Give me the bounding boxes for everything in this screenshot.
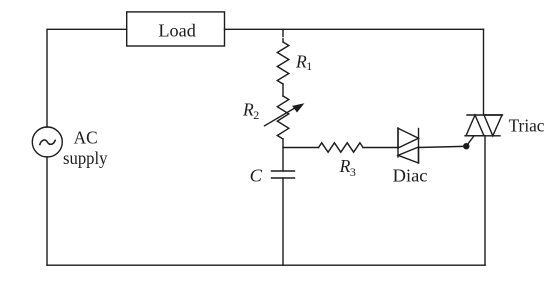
AC sine tilde <box>40 140 55 145</box>
wire left rail below AC <box>46 157 48 265</box>
svg-text:supply: supply <box>63 148 108 168</box>
R2 arrow line <box>265 105 300 126</box>
wire load to top-right corner <box>225 28 484 30</box>
wire bottom rail <box>47 264 485 266</box>
wire top branch to R1 <box>282 29 284 36</box>
svg-text:Load: Load <box>158 20 196 40</box>
diac bottom triangle <box>398 147 419 163</box>
wire capacitor to bottom rail <box>282 178 284 265</box>
svg-text:R: R <box>339 156 351 176</box>
wire diac to gate node <box>419 146 464 147</box>
svg-text:1: 1 <box>306 59 312 73</box>
R2 arrowhead <box>292 103 304 112</box>
svg-text:Diac: Diac <box>393 166 428 186</box>
svg-text:R: R <box>295 51 307 71</box>
capacitor C top plate <box>272 170 295 172</box>
diac right bar <box>418 129 420 164</box>
diac left bar <box>397 128 399 157</box>
capacitor C bottom plate <box>272 177 295 179</box>
resistor R1 <box>277 42 289 84</box>
svg-text:2: 2 <box>253 108 259 122</box>
svg-text:Triac: Triac <box>509 115 545 135</box>
diac top triangle <box>398 128 419 148</box>
resistor R2 (rheostat) <box>277 96 289 139</box>
svg-text:R: R <box>242 99 254 119</box>
triac right triangle <box>484 115 502 136</box>
triac top bar <box>467 114 503 116</box>
wire top-left from AC to Load <box>47 29 127 127</box>
node junction dot <box>463 143 469 149</box>
wire R2 down to capacitor <box>282 139 284 171</box>
Load box <box>127 12 225 46</box>
wire right rail bottom (triac to bottom) <box>484 136 486 265</box>
resistor R3 <box>319 143 364 152</box>
triac gate lead <box>466 136 474 146</box>
wire right rail top (to triac) <box>483 29 485 115</box>
wire R3 to diac <box>363 147 398 149</box>
svg-text:C: C <box>250 166 263 186</box>
wire node to R3 <box>283 147 319 149</box>
svg-text:AC: AC <box>74 128 98 148</box>
AC source circle <box>32 127 62 157</box>
triac left triangle <box>466 115 484 136</box>
triac bottom bar <box>465 135 500 137</box>
wire R1 to R2 <box>282 84 284 96</box>
svg-text:3: 3 <box>350 165 356 179</box>
